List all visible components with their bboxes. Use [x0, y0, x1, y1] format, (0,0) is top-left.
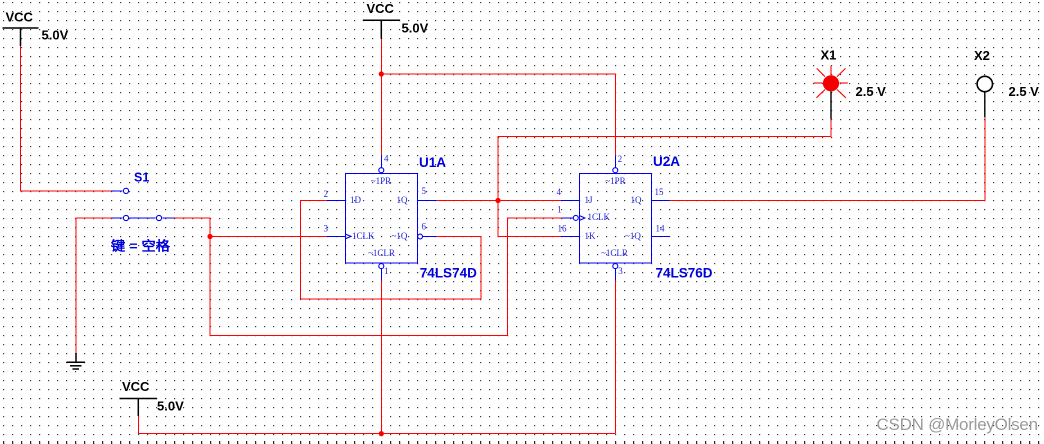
svg-text:1: 1	[557, 204, 562, 214]
wire 1Q net to U2A 1K	[498, 201, 561, 237]
svg-text:1D: 1D	[350, 195, 362, 205]
wire VCC2 to U1A ~1PR (pin 4)	[380, 39, 382, 156]
wire J1 to U2A CLK	[210, 218, 562, 336]
wire 1Q net to probe X1	[498, 119, 831, 200]
probe X2 (unlit)	[977, 76, 992, 91]
svg-text:74LS76D: 74LS76D	[656, 266, 713, 281]
U1A pin6 inversion bubble	[418, 234, 423, 239]
probe X1 (lit, red)	[814, 66, 848, 98]
svg-text:16: 16	[558, 223, 568, 233]
svg-text:1K: 1K	[585, 231, 597, 241]
svg-text:2.5 V: 2.5 V	[856, 84, 887, 99]
svg-text:3: 3	[618, 266, 623, 276]
junction J1	[207, 234, 212, 239]
U2A clock triangle	[580, 216, 585, 220]
junction J4 on VCC3 net	[379, 431, 384, 436]
wire U1A 1Q to U2A 1J	[436, 200, 561, 202]
svg-text:~1Q: ~1Q	[625, 231, 641, 241]
svg-text:U2A: U2A	[653, 154, 680, 169]
wire U2A 1Q to probe X2	[670, 117, 985, 200]
wire VCC3 net to U1A ~1CLR (pin 1)	[380, 281, 382, 434]
wire U1A ~1Q feedback to 1D	[301, 201, 482, 300]
wire VCC2 net to U2A ~1PR (pin 2)	[381, 74, 615, 155]
junction J2 on VCC2 net	[379, 71, 384, 76]
svg-text:5: 5	[422, 186, 427, 196]
svg-text:VCC: VCC	[367, 1, 395, 16]
svg-text:1Q: 1Q	[397, 195, 409, 205]
svg-text:2: 2	[618, 154, 623, 164]
power VCC1 (top-left 5.0V supply)	[3, 28, 39, 46]
svg-text:X1: X1	[821, 48, 837, 63]
svg-text:1Q: 1Q	[631, 195, 643, 205]
svg-text:14: 14	[656, 223, 666, 233]
switch S1 (SPDT, key = space)	[111, 191, 175, 218]
svg-text:S1: S1	[134, 171, 149, 185]
svg-text:CSDN @MorleyOlsen: CSDN @MorleyOlsen	[877, 415, 1038, 434]
svg-text:5.0V: 5.0V	[157, 399, 184, 414]
wire VCC3 net to U2A ~1CLR (pin 3)	[614, 281, 616, 434]
svg-text:~1CLR: ~1CLR	[601, 248, 628, 258]
svg-text:~1Q: ~1Q	[392, 231, 408, 241]
U2A clock pin terminal	[562, 217, 573, 219]
svg-text:74LS74D: 74LS74D	[420, 265, 477, 280]
power VCC3 (bottom 5.0V supply)	[120, 399, 158, 417]
svg-text:6: 6	[422, 221, 427, 231]
svg-text:1CLK: 1CLK	[588, 212, 611, 222]
svg-text:5.0V: 5.0V	[402, 21, 429, 36]
svg-text:4: 4	[384, 154, 389, 164]
svg-text:1J: 1J	[585, 195, 594, 205]
wire VCC1 to S1 throw terminal	[21, 46, 112, 191]
U2A top pin terminal (pin 2)	[614, 155, 616, 167]
svg-text:3: 3	[324, 223, 329, 233]
U1A top pin terminal (pin 4)	[380, 155, 382, 167]
svg-text:X2: X2	[974, 48, 990, 63]
svg-text:~1CLR: ~1CLR	[368, 248, 395, 258]
svg-text:键 = 空格: 键 = 空格	[110, 238, 171, 253]
svg-text:1CLK: 1CLK	[352, 231, 375, 241]
svg-text:VCC: VCC	[122, 379, 150, 394]
wire S1 common to ground	[76, 218, 112, 353]
svg-text:~1PR: ~1PR	[605, 176, 625, 186]
U1A clock triangle	[346, 234, 351, 238]
junction J3 on 1Q net	[495, 198, 500, 203]
ground	[67, 353, 86, 369]
U2A pin stubs	[561, 201, 670, 237]
wire VCC3 to clear pins	[138, 416, 615, 434]
U1A pin stubs	[327, 201, 436, 237]
power VCC2 (top-middle 5.0V supply)	[363, 20, 400, 39]
wire S1 to junction and U1A CLK	[175, 218, 211, 237]
op-amp?: IC U1A 74LS74D body	[346, 174, 418, 264]
svg-text:5.0V: 5.0V	[42, 27, 69, 42]
svg-text:2.5 V: 2.5 V	[1009, 84, 1040, 99]
U1A bottom pin terminal (pin 1)	[380, 269, 382, 281]
svg-text:1: 1	[384, 266, 389, 276]
svg-text:4: 4	[557, 187, 562, 197]
svg-text:2: 2	[324, 189, 329, 199]
svg-text:~1PR: ~1PR	[371, 176, 391, 186]
U2A bottom pin terminal (pin 3)	[614, 269, 616, 281]
svg-text:15: 15	[655, 187, 665, 197]
IC U2A 74LS76D body	[580, 174, 652, 264]
svg-text:U1A: U1A	[419, 155, 446, 170]
svg-text:VCC: VCC	[6, 9, 34, 24]
